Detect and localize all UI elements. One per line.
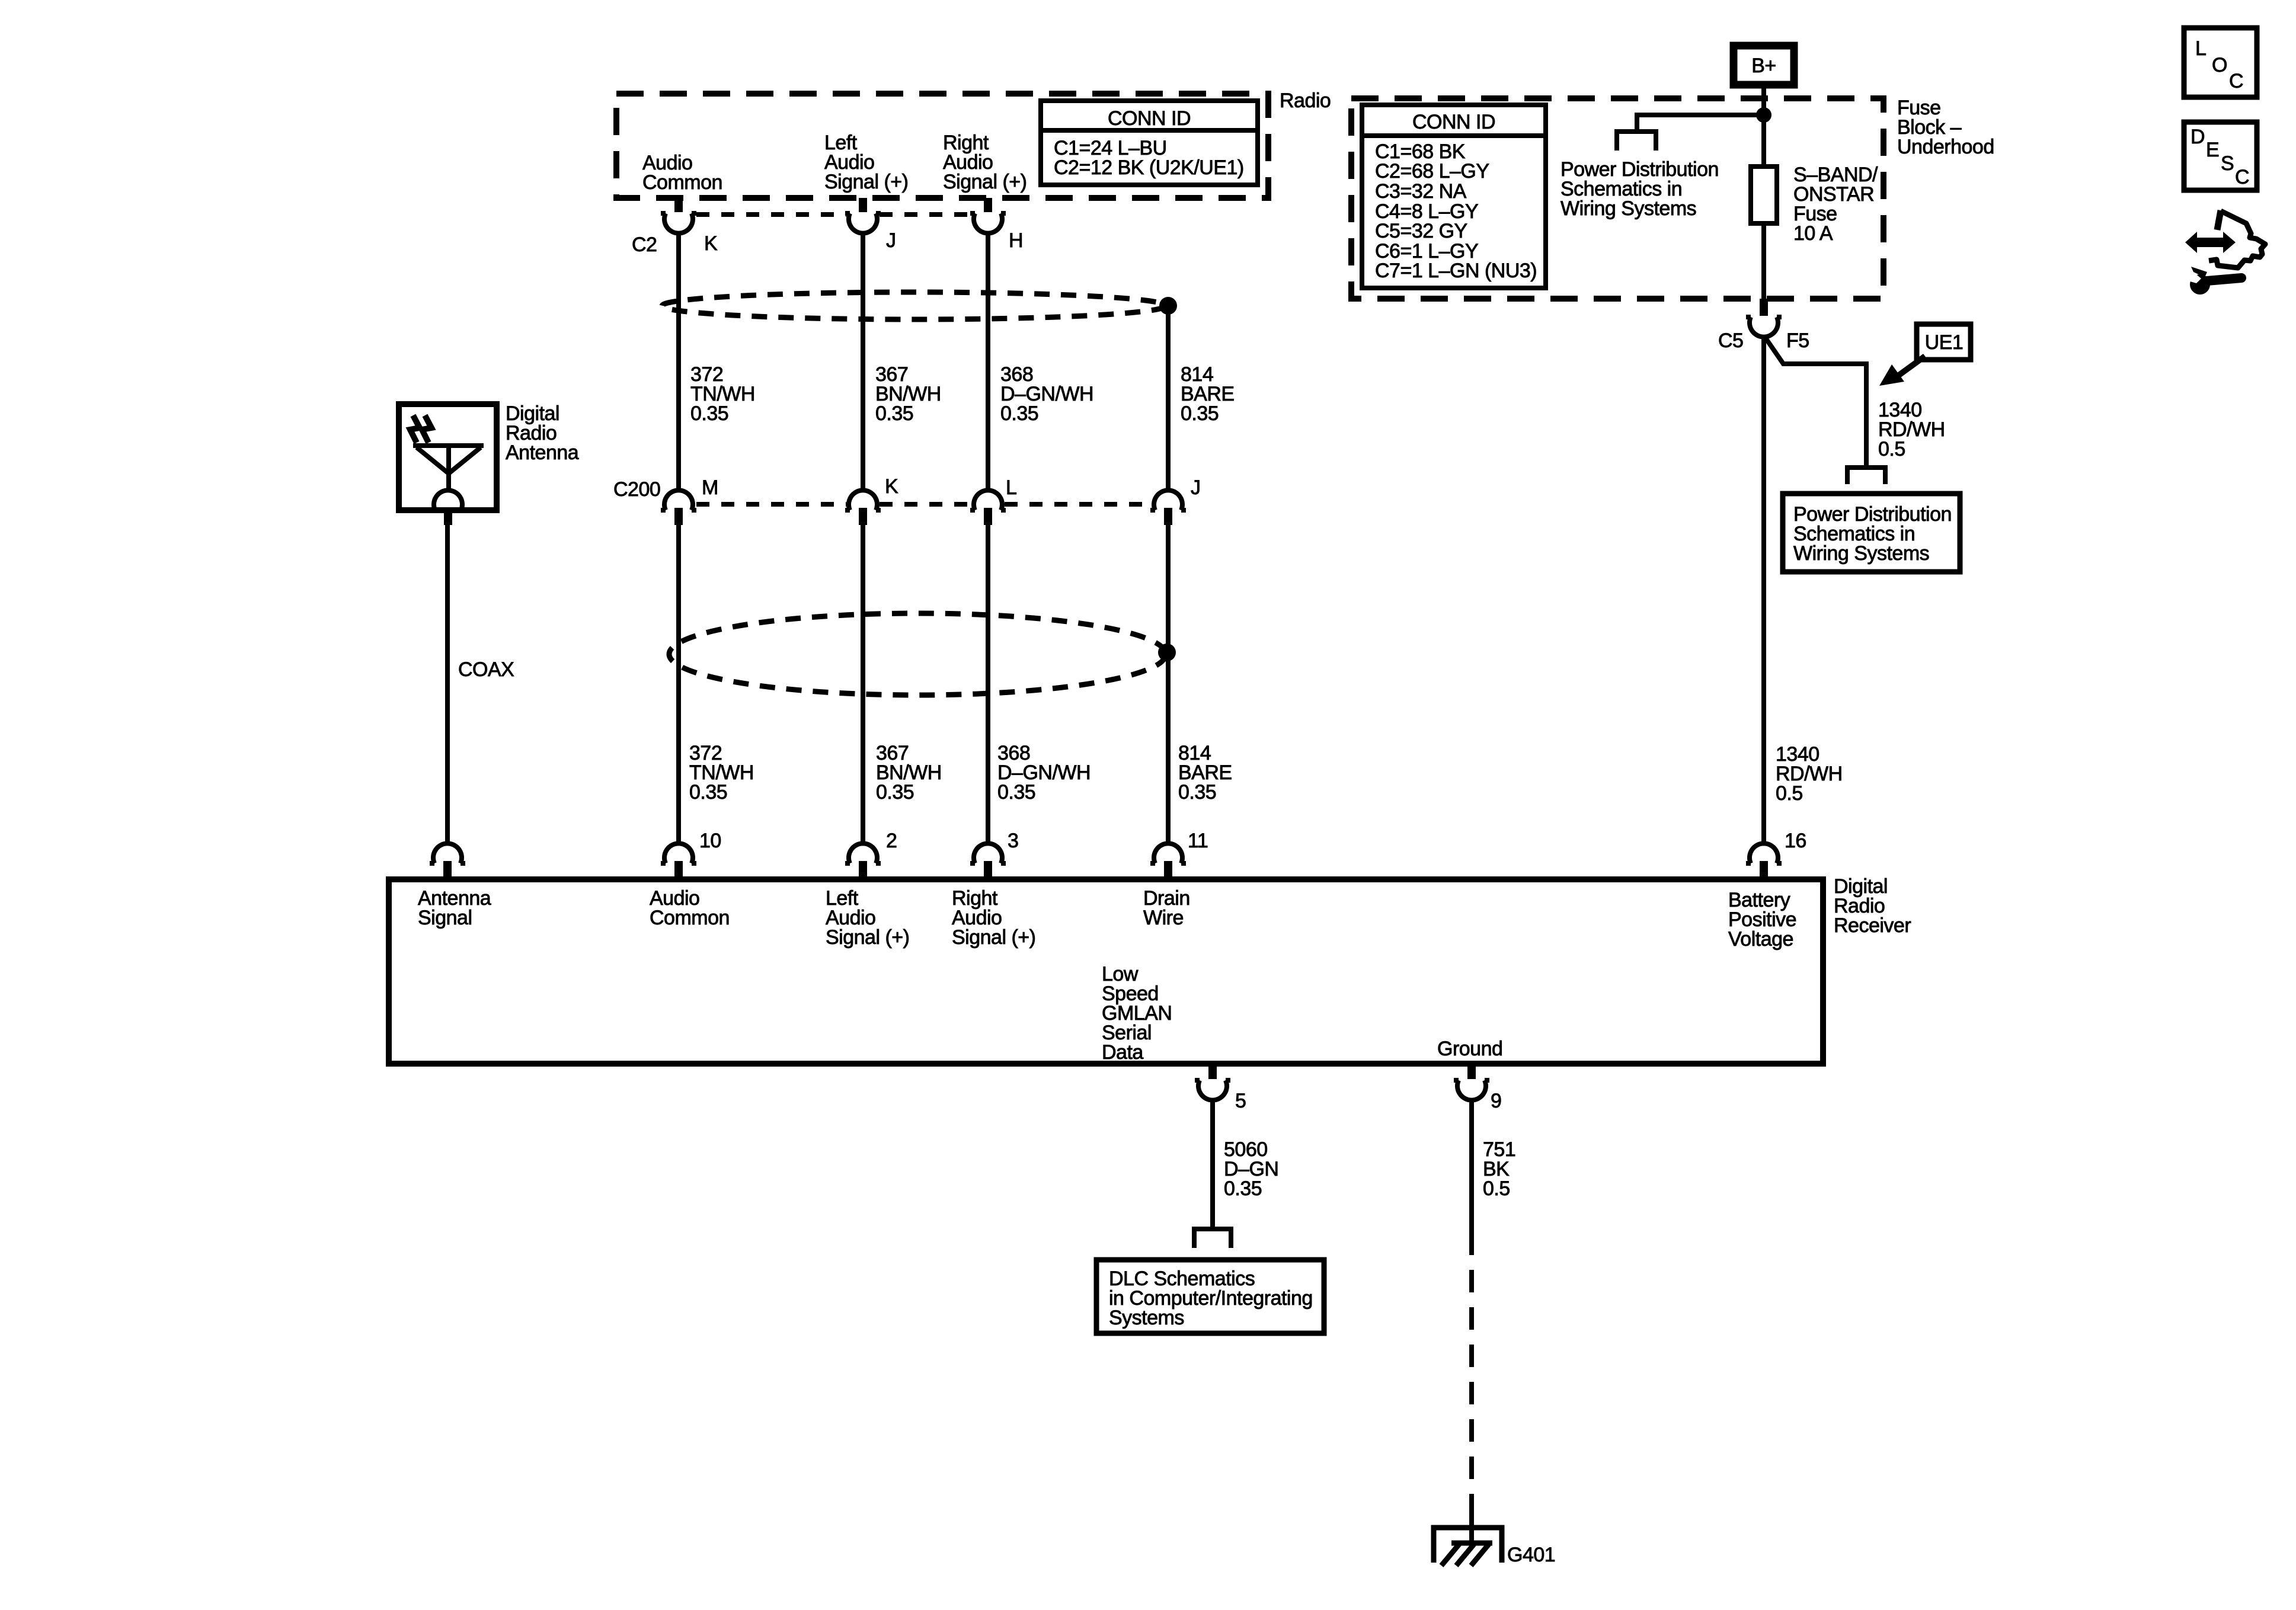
vehicle direction icon with double arrow and wrench [2185,210,2265,295]
svg-text:S: S [2221,152,2234,175]
svg-text:J: J [886,229,896,252]
wire 751 BK dashed segment to ground [1469,1233,1474,1515]
svg-text:G401: G401 [1507,1544,1555,1566]
svg-text:COAX: COAX [458,658,514,681]
svg-text:M: M [702,476,718,499]
antenna dipole symbol [413,446,484,492]
svg-text:Wire: Wire [1143,907,1184,929]
svg-text:0.35: 0.35 [997,781,1035,804]
shield ellipse lower (dashed) [669,613,1166,695]
svg-text:Wiring Systems: Wiring Systems [1793,542,1929,565]
radio dashed outline box [616,94,1268,198]
svg-text:0.35: 0.35 [1181,402,1219,425]
DESC legend box [2184,122,2257,190]
digital radio receiver box [389,879,1823,1064]
svg-text:H: H [1009,229,1023,252]
wire 372 TN/WH upper segment [676,232,681,491]
svg-text:Underhood: Underhood [1897,136,1994,158]
connector C200 dashed grouping line [696,502,1152,507]
connector C2 pin J [845,198,881,233]
digital radio antenna box [399,404,497,510]
svg-text:C: C [2229,70,2243,92]
receiver connector right audio pin 3 [970,843,1006,881]
svg-text:0.5: 0.5 [1483,1177,1510,1200]
connector C200 cavity M [661,490,696,525]
svg-text:J: J [1191,476,1201,499]
svg-text:C3=32 NA: C3=32 NA [1375,180,1467,203]
wire B+ into fuse block [1761,85,1766,300]
svg-text:Systems: Systems [1109,1307,1184,1329]
junction dot drain wire upper [1159,297,1177,315]
receiver connector ground pin 9 [1454,1065,1489,1100]
svg-text:L: L [2195,37,2206,60]
svg-text:C200: C200 [613,478,660,501]
connector C200 cavity L [970,490,1006,525]
svg-text:3: 3 [1008,830,1018,852]
svg-text:Signal (+): Signal (+) [824,171,908,193]
receiver connector GMLAN pin 5 [1195,1065,1230,1100]
svg-text:Common: Common [650,907,730,929]
svg-text:2: 2 [886,830,897,852]
svg-text:Signal: Signal [418,907,472,929]
fuse block underhood dashed outline box [1351,98,1884,299]
fuse F5 S-BAND/ONSTAR body [1751,167,1777,223]
battery feed B+ terminal box [1734,46,1794,85]
wire 814 BARE lower segment [1166,525,1171,844]
svg-text:Voltage: Voltage [1728,928,1793,950]
svg-text:D: D [2191,126,2205,148]
svg-text:C7=1 L–GN (NU3): C7=1 L–GN (NU3) [1375,260,1537,282]
svg-text:0.35: 0.35 [690,402,728,425]
svg-text:L: L [1006,476,1016,499]
wire branch to power distribution reference [1637,115,1764,132]
off-page fork to power distribution schematics (right) [1847,468,1885,484]
svg-text:O: O [2212,54,2227,76]
svg-text:0.35: 0.35 [1224,1177,1262,1200]
svg-text:Signal (+): Signal (+) [826,926,909,949]
wire 372 TN/WH lower segment [676,525,681,844]
svg-text:5: 5 [1235,1090,1246,1112]
svg-text:16: 16 [1785,830,1806,852]
svg-text:F5: F5 [1786,329,1809,352]
wire branch to power distribution (diagonal and elbow) [1765,337,1866,468]
wire COAX antenna to receiver [445,525,450,844]
svg-text:0.5: 0.5 [1878,438,1905,460]
wire 367 BN/WH lower segment [861,525,865,844]
svg-text:Data: Data [1102,1041,1143,1064]
svg-text:K: K [704,232,718,255]
wire 5060 D-GN [1210,1099,1215,1229]
receiver connector audio common pin 10 [661,843,696,881]
DLC schematics reference box [1096,1260,1324,1333]
svg-text:0.35: 0.35 [1178,781,1216,804]
svg-text:C2=68 L–GY: C2=68 L–GY [1375,160,1489,183]
radio CONN ID table [1041,101,1258,185]
svg-text:C5: C5 [1718,329,1743,352]
fuse block CONN ID table [1362,105,1546,288]
antenna RF waves symbol [410,415,431,443]
svg-text:0.35: 0.35 [689,781,727,804]
svg-text:0.35: 0.35 [876,781,914,804]
LOC legend box [2184,28,2257,97]
svg-text:B+: B+ [1751,55,1776,77]
svg-text:Radio: Radio [1280,89,1331,112]
UE1 option tag box [1917,324,1971,360]
wire 751 BK solid segment [1469,1099,1474,1233]
connector C200 cavity K [845,490,881,525]
UE1 arrow pointer [1879,356,1925,386]
svg-text:C5=32 GY: C5=32 GY [1375,220,1467,242]
connector C5 terminal [1746,299,1782,337]
wire 367 BN/WH upper segment [861,232,865,491]
connector C200 cavity J [1150,490,1186,525]
svg-text:0.35: 0.35 [1000,402,1038,425]
svg-text:10: 10 [699,830,721,852]
junction dot drain wire lower [1158,644,1176,661]
svg-text:Ground: Ground [1437,1038,1502,1060]
svg-text:Common: Common [642,171,722,194]
svg-text:K: K [885,475,898,498]
svg-text:UE1: UE1 [1925,331,1964,354]
wire 368 D-GN/WH lower segment [986,525,990,844]
svg-text:9: 9 [1491,1090,1501,1112]
junction dot B+ branch [1756,107,1771,123]
svg-text:10 A: 10 A [1793,222,1833,245]
svg-text:0.5: 0.5 [1776,782,1803,805]
svg-text:C2: C2 [632,233,657,256]
svg-text:Signal (+): Signal (+) [952,926,1035,949]
receiver connector battery positive pin 16 [1746,843,1782,881]
svg-text:C: C [2235,166,2249,188]
svg-text:C2=12 BK (U2K/UE1): C2=12 BK (U2K/UE1) [1054,156,1244,179]
svg-text:Wiring Systems: Wiring Systems [1560,197,1696,220]
wire 1340 RD/WH main vertical [1761,336,1766,844]
connector C2 pin H [970,198,1006,233]
antenna output connector [430,490,466,525]
wire 368 D-GN/WH upper segment [986,232,990,491]
receiver connector drain wire pin 11 [1150,843,1186,881]
svg-text:E: E [2206,139,2219,161]
shield ellipse upper (dashed) [662,292,1166,319]
ground G401 symbol [1434,1512,1502,1566]
svg-text:Antenna: Antenna [506,441,579,464]
svg-text:11: 11 [1188,830,1208,852]
power distribution schematics reference box (right) [1783,494,1960,572]
svg-text:CONN ID: CONN ID [1108,107,1191,130]
off-page fork to DLC schematics [1194,1229,1231,1248]
receiver connector antenna signal [430,843,465,881]
receiver connector left audio pin 2 [845,843,881,881]
connector C2 pin K [661,198,696,233]
svg-text:Receiver: Receiver [1834,914,1911,937]
svg-text:Signal (+): Signal (+) [943,171,1027,193]
off-page fork to power distribution schematics [1617,132,1656,151]
svg-text:0.35: 0.35 [875,402,913,425]
wire 814 BARE upper segment [1166,311,1171,491]
svg-text:CONN ID: CONN ID [1412,111,1495,133]
connector C2 dashed grouping line [696,212,971,217]
